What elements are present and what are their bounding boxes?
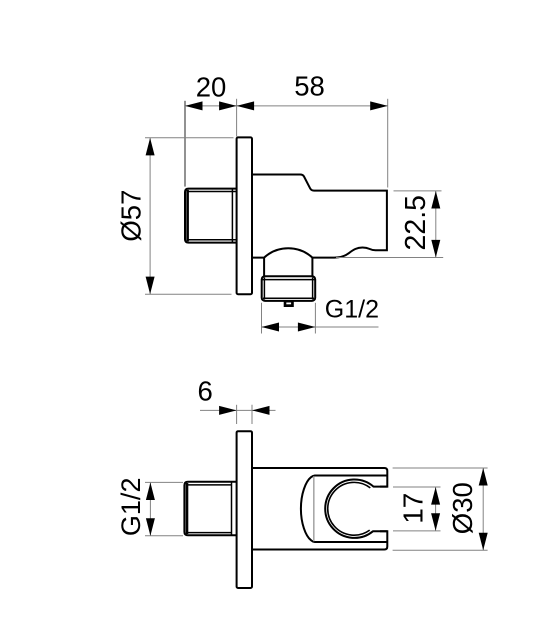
svg-text:17: 17 — [398, 493, 429, 524]
svg-text:58: 58 — [294, 71, 325, 102]
dimension 58 extension line right — [387, 99, 389, 188]
holder C-ring outer arc — [325, 479, 387, 537]
dimension line 20/58 — [185, 105, 388, 107]
svg-text:20: 20 — [196, 71, 227, 102]
holder cup (bottom view) — [301, 476, 387, 543]
dimension 22.5 extension line top — [394, 190, 442, 192]
dimension line O30 — [482, 468, 484, 550]
dimension line G1/2 — [262, 326, 379, 328]
arrow toward plate right (6) — [252, 406, 270, 415]
dimension 6 extension lines — [236, 405, 238, 424]
svg-text:6: 6 — [198, 376, 213, 407]
dimension extension line at plate left edge — [236, 99, 238, 137]
dimension line 22.5 — [435, 191, 437, 257]
body housing O30 (bottom view) — [252, 468, 387, 550]
threaded inlet nipple (top view) — [185, 189, 237, 243]
arrow right G1/2 — [298, 323, 316, 332]
arrow down 17 — [431, 513, 440, 531]
arrow right of 58 — [370, 101, 388, 110]
arrow left of 58 — [237, 101, 255, 110]
dimension 22.5 extension line bottom — [336, 257, 443, 259]
dimension G1/2 extension line left — [261, 303, 263, 334]
arrow up O30 — [479, 468, 488, 486]
svg-text:22.5: 22.5 — [400, 195, 432, 250]
svg-text:G1/2: G1/2 — [325, 295, 379, 323]
svg-text:Ø30: Ø30 — [447, 482, 478, 534]
arrow down 22.5 — [431, 240, 440, 258]
arrow down G1/2 bottom — [146, 518, 155, 536]
dimension G1/2 bottom extension lines — [145, 481, 183, 483]
outlet nub below block (top view) — [284, 301, 294, 307]
dimension 20 extension line left — [184, 101, 186, 187]
dimension line 17 — [435, 487, 437, 531]
dimension 17 extension lines — [393, 486, 441, 488]
arrow up 17 — [431, 487, 440, 505]
holder C-ring inner arc — [328, 482, 371, 535]
arrow left of 20 — [185, 101, 203, 110]
arrow down O30 — [479, 533, 488, 551]
arrow toward plate left (6) — [219, 406, 237, 415]
arrow up 22.5 — [431, 191, 440, 209]
threaded inlet nipple (bottom view) — [184, 482, 237, 536]
dimension line G1/2 bottom — [149, 483, 151, 536]
holder cup chord line (grey) — [313, 476, 315, 541]
arrow left G1/2 — [262, 323, 280, 332]
svg-text:Ø57: Ø57 — [115, 190, 146, 242]
wall plate (top view) — [237, 137, 252, 294]
body outline (top view) — [252, 175, 387, 258]
wall plate (bottom view) — [237, 431, 252, 588]
dimension line 6 — [200, 409, 276, 411]
arrow up G1/2 bottom — [146, 483, 155, 501]
dimension O57 extension line bottom — [145, 293, 232, 295]
dimension line O57 — [149, 138, 151, 294]
dimension O57 extension line top — [145, 137, 234, 139]
svg-text:G1/2: G1/2 — [116, 478, 146, 537]
arrow right of 20 — [219, 101, 237, 110]
outlet neck (top view) — [264, 258, 312, 277]
dimension G1/2 extension line right — [314, 303, 316, 334]
dimension O30 extension lines — [393, 467, 488, 469]
arrow down O57 — [146, 277, 155, 295]
outlet block G1/2 (top view) — [262, 276, 316, 301]
arrow up O57 — [146, 138, 155, 156]
